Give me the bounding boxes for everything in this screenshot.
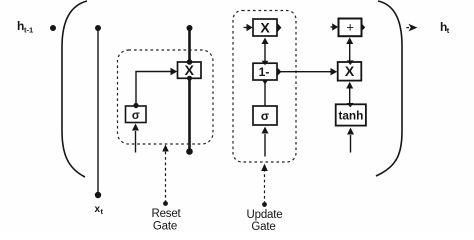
- node h_t-1 dot: [50, 25, 56, 31]
- svg-text:t-1: t-1: [24, 26, 33, 35]
- wire stub into adder left: [331, 23, 339, 30]
- update gate label: [247, 209, 283, 233]
- pin adder right: [362, 23, 366, 31]
- X output multiplier box: [338, 62, 362, 81]
- sigma reset box: [126, 106, 147, 123]
- svg-text:Gate: Gate: [251, 221, 275, 232]
- svg-text:1-: 1-: [259, 65, 270, 79]
- svg-text:X: X: [260, 19, 270, 35]
- svg-text:Reset: Reset: [151, 208, 181, 220]
- pin 1- top: [262, 61, 269, 65]
- X update multiplier box: [253, 19, 277, 36]
- svg-text:σ: σ: [261, 109, 269, 123]
- wire stub into X update left: [244, 24, 253, 31]
- svg-text:tanh: tanh: [338, 108, 363, 122]
- X reset multiplier box: [178, 59, 202, 80]
- wire sigma reset to X reset: [136, 68, 177, 104]
- svg-text:σ: σ: [132, 110, 140, 122]
- svg-text:X: X: [185, 62, 195, 78]
- wire input to sigma update: [262, 127, 269, 157]
- svg-text:Update: Update: [247, 209, 283, 221]
- reset gate label: [151, 208, 181, 232]
- pin X update right: [278, 23, 282, 32]
- node h_t-1 label: [17, 19, 33, 35]
- left bracket: [62, 1, 87, 177]
- wire sigma update to 1-: [262, 80, 269, 106]
- tanh box: [336, 104, 366, 125]
- svg-text:X: X: [345, 63, 355, 79]
- reset gate pointer arrow: [162, 145, 169, 206]
- reset gate dashed box: [118, 50, 214, 144]
- wire 1- to X output: [279, 68, 337, 75]
- output arrow h_t: [406, 24, 417, 32]
- pin tanh top: [347, 103, 354, 107]
- junction dot sigma reset output: [133, 103, 138, 108]
- pin 1- right: [278, 68, 282, 76]
- node x_t label: [95, 204, 104, 216]
- one-minus box: [253, 63, 277, 80]
- update gate dashed box: [233, 11, 296, 163]
- update gate pointer arrow: [261, 164, 268, 207]
- right bracket: [376, 1, 402, 176]
- svg-text:Gate: Gate: [153, 221, 177, 232]
- wire h_t-1 vertical: [95, 25, 101, 198]
- wire input to sigma reset: [132, 124, 139, 153]
- wire 1- to X update: [262, 38, 269, 61]
- svg-text:+: +: [346, 20, 354, 35]
- adder box: [339, 19, 362, 37]
- wire X output to adder: [346, 37, 353, 61]
- wire h state bold vertical: [186, 25, 193, 155]
- node h_t label: [440, 20, 450, 35]
- pin X output top: [347, 60, 354, 65]
- sigma update box: [253, 106, 277, 125]
- wire input to tanh: [347, 128, 354, 153]
- wire tanh to X output: [346, 82, 353, 104]
